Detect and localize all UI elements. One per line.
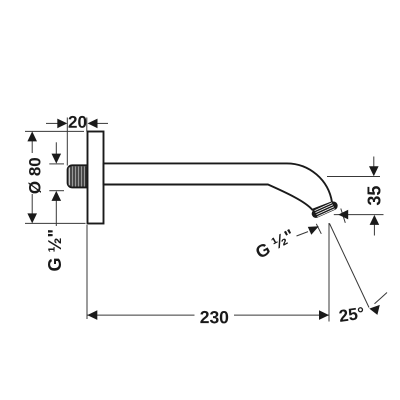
svg-text:25°: 25° [338,304,366,326]
svg-text:G ½": G ½" [45,229,65,272]
svg-text:20: 20 [68,113,87,132]
svg-text:35: 35 [364,186,384,206]
svg-text:Ø 80: Ø 80 [26,157,45,194]
svg-text:230: 230 [200,307,230,327]
